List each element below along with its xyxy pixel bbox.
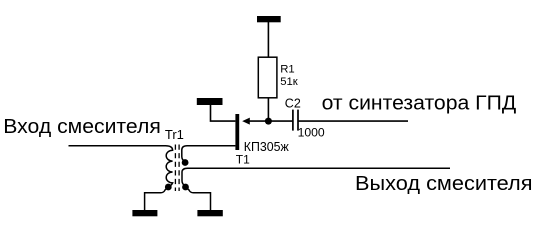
svg-text:Выход смесителя: Выход смесителя: [355, 173, 533, 195]
wire: top-left ground stem: [211, 105, 236, 121]
capacitor C2 left plate: [292, 110, 294, 131]
svg-text:C2: C2: [285, 96, 301, 110]
svg-text:КП305ж: КП305ж: [244, 140, 290, 154]
transformer secondary lower winding + mixer output wire: [182, 168, 450, 186]
wire + transformer Tr1 primary winding (left): [69, 146, 173, 187]
svg-text:1000: 1000: [298, 125, 325, 139]
transformer secondary upper winding + wire to T1 source: [182, 146, 236, 162]
transformer core dashed line 1: [174, 145, 176, 192]
power rail bar (top): [257, 16, 281, 22]
resistor R1: [258, 57, 277, 98]
wire: R1 to node A: [267, 98, 269, 121]
ground (bottom right): [197, 210, 222, 216]
wire: C2 to synthesizer input: [298, 120, 408, 122]
svg-text:Tr1: Tr1: [165, 127, 184, 142]
node: primary bottom dot: [165, 184, 172, 191]
svg-text:Т1: Т1: [236, 153, 250, 167]
substrate arrow of transistor T1: [242, 118, 250, 125]
svg-text:R1: R1: [280, 64, 294, 76]
ground (top left): [197, 98, 223, 105]
node A junction dot: [265, 118, 272, 125]
ground (bottom left): [132, 210, 157, 216]
capacitor C2 right plate: [297, 110, 299, 131]
svg-text:от синтезатора ГПД: от синтезатора ГПД: [322, 93, 517, 115]
svg-text:51к: 51к: [280, 76, 298, 88]
transistor T1 channel bar: [235, 114, 239, 150]
svg-text:Вход смесителя: Вход смесителя: [3, 116, 161, 138]
node: secondary bottom dot: [182, 184, 189, 191]
wire: primary bottom to left ground: [145, 187, 169, 210]
wire: power bar to R1: [267, 22, 269, 57]
node: secondary tap dot: [182, 159, 189, 166]
wire: secondary bottom to right ground: [186, 187, 211, 210]
transformer core dashed line 2: [178, 145, 180, 192]
wire: arrow base through node A to capacitor C2: [249, 120, 293, 122]
